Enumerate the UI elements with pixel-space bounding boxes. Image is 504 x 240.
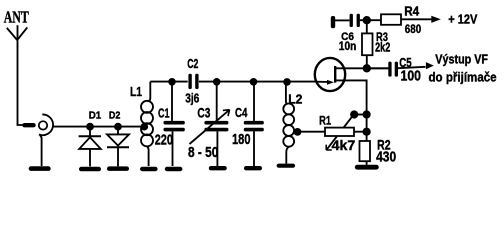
svg-text:180: 180: [232, 130, 251, 147]
svg-text:R1: R1: [319, 115, 331, 128]
svg-text:D1: D1: [89, 110, 102, 121]
svg-text:Výstup VF: Výstup VF: [435, 51, 488, 66]
svg-text:do přijímače: do přijímače: [429, 70, 497, 85]
svg-text:220: 220: [155, 131, 173, 148]
svg-text:10n: 10n: [339, 41, 357, 54]
svg-text:L2: L2: [288, 92, 302, 106]
svg-text:100: 100: [401, 68, 422, 84]
svg-text:430: 430: [376, 148, 396, 165]
svg-text:D2: D2: [109, 110, 121, 122]
svg-text:L1: L1: [130, 86, 143, 99]
svg-text:C4: C4: [235, 107, 248, 121]
svg-text:4k7: 4k7: [332, 137, 356, 153]
svg-text:3j6: 3j6: [185, 92, 199, 105]
svg-text:C2: C2: [187, 58, 198, 72]
svg-text:R4: R4: [404, 4, 419, 19]
svg-text:ANT: ANT: [4, 9, 29, 28]
svg-text:8 - 50: 8 - 50: [188, 144, 218, 160]
svg-text:2k2: 2k2: [375, 41, 390, 55]
svg-text:680: 680: [405, 23, 421, 36]
svg-text:+ 12V: + 12V: [448, 12, 478, 27]
svg-text:C1: C1: [158, 107, 169, 121]
svg-text:C3: C3: [197, 105, 210, 121]
